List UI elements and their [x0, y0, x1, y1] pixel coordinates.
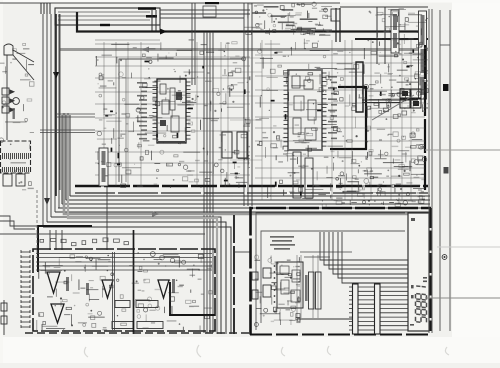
label: rotated KEYBOARD text	[305, 275, 308, 301]
wire: mid-left feeder links	[40, 114, 95, 133]
capacitor bank left of U3	[252, 268, 271, 299]
wire: thick drop x=56 with arrow	[55, 14, 57, 196]
top page margin	[0, 0, 500, 3]
wire: tone rails	[36, 254, 212, 271]
bus inner conductors	[58, 12, 150, 20]
wire: gray thick bus pair	[64, 113, 430, 214]
op-amp A2	[102, 280, 113, 298]
wire: top-left cluster rails	[95, 40, 160, 44]
node: circled letter G	[442, 255, 447, 260]
cluster: IF/detector circuitry left	[96, 39, 250, 188]
wire: centre vertical bundle	[204, 32, 213, 333]
IC: left connector block	[1, 141, 31, 173]
VR boxes: tone pots	[222, 132, 247, 158]
connector comb left of tone block	[21, 250, 30, 330]
parts row above tone block	[40, 238, 128, 246]
wire: rails above connector	[300, 252, 352, 257]
label: value text column right of IC U2	[328, 76, 337, 139]
wire: top horizontal rail	[0, 2, 340, 4]
component lead dashes	[105, 49, 414, 195]
left page margin	[0, 0, 3, 363]
right page margin	[452, 0, 500, 363]
wire: corridor link to display block	[235, 251, 250, 253]
bus loop box top-left	[55, 8, 160, 25]
cluster: tone control parts	[36, 252, 212, 332]
block: display/tuner board boundary	[251, 208, 432, 335]
label: rotated display adjust boxes	[309, 272, 322, 309]
component boxes below connector	[3, 174, 25, 186]
arrow on bus rail	[160, 29, 167, 35]
IC U1 pins	[153, 82, 191, 139]
component box at dark pair	[331, 9, 340, 21]
wire: cross-corridor links	[230, 58, 262, 160]
coil: shielded narrow can	[356, 62, 363, 112]
label: rotated sheet letter	[443, 84, 449, 91]
IC U1 internals	[158, 84, 185, 143]
wire: vertical feeder bundle left	[43, 14, 59, 227]
block: inner rect	[261, 231, 405, 323]
node: small label box top	[203, 6, 216, 17]
wire: dark pair y=100	[362, 100, 418, 103]
label: rotated adjust boxes mid-right	[293, 152, 313, 198]
label: rotated channel names	[66, 277, 175, 295]
IC U3 pin dots	[274, 265, 276, 303]
display digits 5888 (seven-segment, rotated)	[416, 286, 427, 323]
display window right border thick	[430, 208, 432, 331]
wire: right margin horizontal y=298	[425, 297, 500, 299]
block: inner boundary lines	[256, 213, 405, 330]
wire: diagonal test-point lead	[372, 95, 414, 120]
cluster: stereo decoder circuitry right	[256, 38, 427, 208]
wire: thick routing loop	[330, 87, 366, 149]
arrow on gray bus	[152, 211, 159, 217]
connector CN1 (pin bar)	[353, 284, 359, 334]
connector CN2 (pin bar)	[375, 284, 381, 334]
op-amp A1	[47, 272, 60, 293]
label: part number text rows	[270, 236, 295, 250]
wire: connector top link	[353, 282, 380, 284]
wire: centre-right verticals	[262, 40, 411, 200]
label: BASS range box	[136, 301, 158, 308]
label: MPX filter adj rotated box	[99, 148, 108, 186]
wire: gray band bus y=49	[60, 48, 428, 51]
wire: bus corner drops to main rail	[152, 10, 160, 31]
wire: main thick bus rail y=31	[77, 12, 420, 32]
cluster: FM demod top-right	[367, 8, 428, 115]
label: rotated sheet letter 2	[444, 167, 449, 174]
IC U2 internals	[292, 76, 316, 140]
label: value text column left of IC U1	[137, 82, 147, 140]
wire: rail y=193	[75, 192, 428, 194]
wire: right column tick	[440, 44, 450, 46]
wire: thick segment y=39 right	[355, 38, 428, 40]
display window	[408, 213, 429, 331]
wire: bundle x=192	[192, 3, 195, 85]
label: top adjust text rows	[252, 6, 317, 32]
op-amp A3	[158, 280, 169, 298]
block: tone control dashed boundary	[33, 249, 215, 331]
wire: dashed vertical x=37	[36, 190, 38, 258]
wire: centre-left verticals	[104, 42, 228, 186]
wire: thick corner into tone block	[38, 226, 92, 272]
wire: top-right feeder drops	[377, 7, 385, 64]
wire: nested fan to display window	[320, 232, 408, 283]
wire: bundle x=244	[244, 3, 252, 206]
cluster: left input strip	[0, 43, 34, 190]
cluster: top adjust labels	[244, 2, 332, 36]
wire: top nested rails to centre	[160, 10, 250, 18]
cluster: display board parts	[254, 255, 300, 327]
IC U2 (stereo decoder)	[288, 70, 322, 150]
wire: drops into tone block	[50, 182, 107, 250]
page curl shadows	[84, 345, 449, 357]
wire: right margin horizontal y=150	[425, 149, 500, 151]
wire: drop x=60	[59, 14, 61, 190]
label: TREBLE box	[112, 322, 133, 329]
label: rotated test point box	[391, 10, 399, 53]
wire: right margin horizontal y=247	[437, 246, 500, 248]
wire: ground dash corridor segment	[205, 332, 250, 334]
wire: left edge entry steps	[0, 216, 38, 226]
block: IF section outline	[119, 59, 244, 182]
wire: bottom dashed ground rail left	[25, 332, 205, 334]
IC U3: display microcontroller	[277, 262, 303, 308]
block: bottom edge	[250, 334, 431, 336]
wire: corner arcs verticals to east rails	[62, 115, 70, 204]
wire: right verticals	[429, 9, 450, 333]
label: TREBLE range box	[137, 322, 163, 329]
connector: plug chain top-left	[2, 44, 34, 140]
cluster: lower mid-right parts	[330, 151, 424, 206]
wire: thick right bus	[424, 45, 426, 193]
connector: bottom-left pigtail	[1, 300, 7, 335]
wire: thick dashed main rail y=186	[75, 185, 428, 187]
wire: display block drops	[297, 255, 318, 318]
IC U2 pins	[284, 73, 327, 146]
wire: centre-right horizontals	[255, 55, 425, 178]
label: BASS box	[115, 301, 130, 308]
label: rotated POWER SW	[13, 108, 15, 119]
wire: top-left feeder drops	[41, 3, 50, 14]
wire: ladder rungs between connectors	[349, 287, 408, 330]
wire: centre-left horizontals	[95, 57, 250, 175]
op-amp A4	[51, 304, 64, 323]
arrow on gray band	[142, 47, 149, 53]
connector pin comb	[3, 153, 29, 159]
display legend marks AM kHz	[410, 218, 427, 326]
wire: thick corridor drop x=234	[233, 215, 235, 334]
comb teeth row below	[3, 167, 29, 172]
arrow down on feeder	[44, 198, 50, 205]
component stack: detector cluster	[400, 89, 421, 108]
bus dark dash segments	[100, 2, 219, 26]
transistor Q1	[13, 98, 20, 105]
wire: thin rail y=234	[0, 233, 205, 235]
wire: link to tuning display	[300, 318, 353, 320]
bottom page margin	[0, 337, 500, 363]
wire: nested corner fan turning east	[43, 196, 430, 334]
IC U1 (tall DIP)	[157, 79, 186, 143]
wire: secondary top rail right	[340, 6, 428, 8]
label: rotated adjust box (FM monaural detection adj)	[419, 11, 427, 99]
wire: dark pair x=336 top	[336, 8, 340, 42]
wire: thick verticals in tone block	[133, 230, 135, 334]
